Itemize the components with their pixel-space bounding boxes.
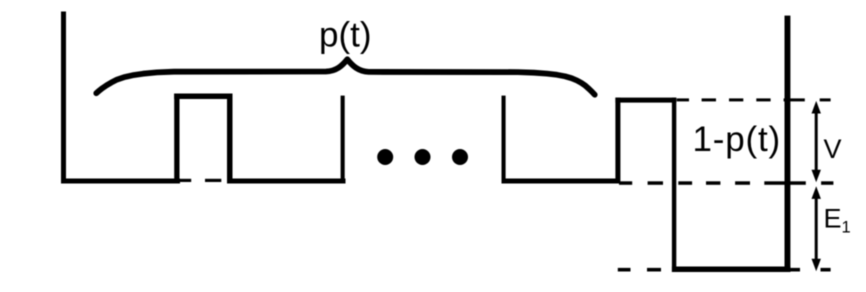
barrier 1 top xyxy=(174,94,232,100)
label E1 xyxy=(824,203,851,236)
barrier 2 top xyxy=(615,98,676,103)
barrier 1 right leg xyxy=(227,94,233,184)
half barrier after dots xyxy=(502,96,506,184)
svg-text:1-p(t): 1-p(t) xyxy=(693,120,781,159)
left outer wall xyxy=(61,12,66,184)
dashed floor under barrier 1 xyxy=(180,179,222,182)
well floor segment A xyxy=(61,179,180,184)
well floor segment C xyxy=(502,179,620,184)
barrier 2 right leg (deep well left wall) xyxy=(672,98,676,272)
deep well bottom xyxy=(672,267,791,273)
bottom dashed level line xyxy=(618,268,831,272)
label p(t) xyxy=(319,16,372,55)
middle dashed level line xyxy=(619,181,833,185)
half barrier before dots xyxy=(341,96,345,184)
svg-text:1: 1 xyxy=(842,218,851,236)
arrow E1 (double headed) xyxy=(812,186,821,271)
well floor segment B xyxy=(227,179,346,184)
svg-text:V: V xyxy=(824,134,842,164)
label V xyxy=(824,134,842,164)
label 1-p(t) xyxy=(693,120,781,159)
ellipsis dots xyxy=(377,149,468,165)
top dashed level line xyxy=(677,98,831,101)
svg-text:p(t): p(t) xyxy=(319,16,372,55)
curly brace p(t) xyxy=(96,59,594,94)
barrier 2 left leg xyxy=(615,98,620,184)
arrow V (double headed) xyxy=(812,101,821,182)
svg-text:E: E xyxy=(824,203,842,233)
right outer wall xyxy=(785,16,791,272)
barrier 1 left leg xyxy=(174,94,179,184)
